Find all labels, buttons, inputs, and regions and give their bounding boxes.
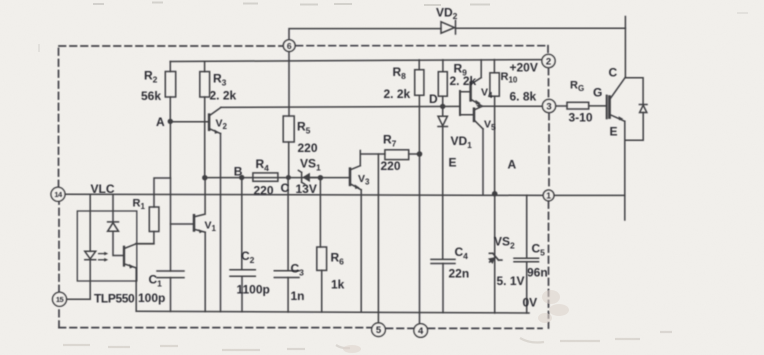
resistor R6 <box>319 178 321 247</box>
node 15 terminal circle <box>53 292 67 306</box>
wire: node A column down <box>154 121 170 207</box>
diode VD1 <box>442 106 444 116</box>
resistor R1 <box>149 207 159 232</box>
transistor V4 <box>469 83 472 101</box>
resistor R10 <box>493 60 495 73</box>
capacitor C2 <box>241 178 243 270</box>
wire: node D line from V2 collector <box>221 106 460 107</box>
dashed enclosure border <box>59 46 550 329</box>
wire: top collector-sense wire <box>289 29 441 40</box>
node A junction <box>168 119 173 124</box>
optocoupler TLP550 box <box>77 211 137 281</box>
transistor V1 <box>193 215 196 230</box>
diode VD2 <box>441 22 455 33</box>
wire: V1 base stub <box>171 223 194 225</box>
transistor V5 <box>473 109 476 121</box>
LED of optocoupler <box>89 194 91 251</box>
wire: A column to C1 <box>170 178 172 271</box>
diode of optocoupler input <box>112 194 114 222</box>
wire: pin 3 to gate resistor <box>556 105 567 107</box>
wire: input bus from pin 14 to pin 1 <box>65 194 543 195</box>
resistor R8 <box>418 60 420 70</box>
zener VS1 <box>298 170 304 184</box>
junction R7/R8 <box>417 151 423 157</box>
transistor V3 <box>349 169 352 185</box>
resistor RG <box>567 102 589 109</box>
wire: node A to V2 base <box>170 121 209 123</box>
node 6 terminal circle <box>283 40 295 52</box>
node 2 terminal circle <box>542 54 555 67</box>
junction R3 foot <box>202 175 207 180</box>
IGBT <box>606 96 608 119</box>
resistor R9 <box>442 60 444 72</box>
wire: pin6 column down to R5 <box>288 52 290 117</box>
zener VS2 <box>494 194 496 313</box>
resistor R7 <box>360 153 385 155</box>
node 4 terminal circle <box>414 324 428 338</box>
node 5 terminal circle <box>372 323 386 337</box>
capacitor C5 <box>526 195 528 258</box>
wire: pin 15 lead <box>67 298 90 300</box>
light arrows <box>99 253 106 255</box>
node 3 terminal circle <box>542 99 555 112</box>
node D junction <box>440 104 445 109</box>
transistor V2 <box>208 115 211 130</box>
wire: bias bus node B row <box>205 177 350 179</box>
node 14 terminal circle <box>51 187 65 201</box>
resistor R4 <box>253 173 278 181</box>
power rail +20V wire <box>170 60 542 62</box>
capacitor C4 <box>431 259 455 263</box>
phototransistor <box>123 247 125 266</box>
capacitor C1 <box>157 271 184 278</box>
resistor R5 <box>283 116 294 142</box>
output stage base bar <box>459 91 461 115</box>
node B junction <box>239 175 244 180</box>
junction R10 foot <box>492 191 498 197</box>
capacitor C3 <box>287 178 289 271</box>
wire: internal ground bus <box>136 311 529 313</box>
node C junction <box>286 175 291 180</box>
faint smudge near 0V <box>343 290 569 353</box>
wire: pin 4 column <box>419 154 421 324</box>
node 1 terminal circle <box>543 190 554 201</box>
wire: pin 1 to IGBT emitter rail <box>554 194 625 196</box>
freewheel diode <box>625 78 643 105</box>
resistor R2 <box>169 62 171 72</box>
resistor R3 <box>204 61 206 71</box>
wire: pin 5 column <box>377 154 379 323</box>
wire: output to pin 3 <box>482 105 542 107</box>
junction after VS1 <box>318 175 323 180</box>
scan noise marks <box>39 3 748 53</box>
